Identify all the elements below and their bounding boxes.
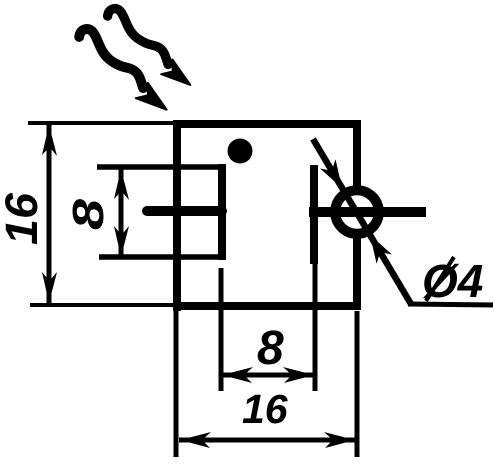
arrowhead at hole lower-right (370, 235, 392, 264)
right lead wire (309, 207, 426, 217)
dim 8 left: bottom arrowhead (114, 226, 129, 257)
mounting dot (228, 139, 253, 164)
dim 8 bottom: left arrowhead (222, 367, 253, 383)
arrowhead at hole upper-left (320, 159, 342, 188)
dia slash extension (426, 257, 454, 301)
dim 16 left: bottom extension line (30, 303, 173, 307)
dim 16 left: top extension line (28, 121, 177, 125)
dia dimension line diagonal (313, 139, 411, 304)
inner tab rectangle bottom line / ext line (99, 254, 222, 260)
inner tab rectangle right edge (218, 164, 226, 260)
svg-text:16: 16 (0, 192, 47, 245)
body right edge lower (353, 236, 361, 307)
dim 16 left: bottom arrowhead (42, 272, 57, 303)
dim 16 left: dimension line (47, 124, 52, 304)
svg-text:8: 8 (257, 322, 284, 375)
dim 8 bottom: right arrowhead (283, 367, 314, 383)
svg-text:8: 8 (64, 198, 113, 230)
dim 8 left: top arrowhead (114, 169, 129, 200)
svg-text:16: 16 (242, 386, 289, 432)
inner tab rectangle top line / ext line (97, 164, 222, 170)
dim 16 bottom: right arrowhead (324, 432, 355, 448)
light ray wavy arrow 2 (right) (108, 9, 191, 85)
hole circle (335, 190, 379, 234)
dim 16 bottom: left arrowhead (180, 432, 211, 448)
light ray wavy arrow 1 (left) (79, 29, 166, 110)
dim 8 left: dimension line (119, 168, 124, 258)
dim 8 bottom: dimension line (221, 373, 315, 378)
dim 16 bottom: dimension line (179, 438, 356, 443)
dim 16 bottom: left ext line (174, 311, 179, 457)
body bottom edge (173, 302, 361, 310)
vertical edge near hole (310, 165, 318, 264)
svg-text:Ø4: Ø4 (422, 255, 483, 307)
ext line below tab right edge (219, 268, 224, 391)
dim 16 left: top arrowhead (42, 125, 57, 156)
body outline: top, left, right upper (177, 124, 357, 311)
dia leader shelf (408, 304, 493, 305)
left lead tab (147, 206, 222, 216)
dim 16 bottom: right ext line (355, 311, 360, 457)
ext line below vertical edge (313, 264, 318, 391)
